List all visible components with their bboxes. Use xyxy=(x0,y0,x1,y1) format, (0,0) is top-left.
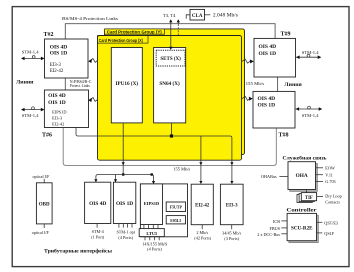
block T#2 line card xyxy=(45,39,89,78)
svg-text:2 x DCC-Bus: 2 x DCC-Bus xyxy=(257,232,280,237)
svg-text:(4 Ports): (4 Ports) xyxy=(147,247,162,252)
wire OIS 1D port ticks xyxy=(119,224,132,228)
svg-text:OIS 1D: OIS 1D xyxy=(50,51,68,57)
connector STM-1,4 right of T#8 xyxy=(296,106,323,119)
svg-text:Dry Loop: Dry Loop xyxy=(325,193,341,198)
svg-text:OIS 1D: OIS 1D xyxy=(48,100,66,106)
block CLA xyxy=(190,9,205,20)
card protection group X (front yellow card) xyxy=(98,36,242,161)
svg-text:OIS 4D: OIS 4D xyxy=(48,93,66,99)
wire CLA left stub xyxy=(186,15,190,19)
svg-text:OHABus: OHABus xyxy=(261,174,277,179)
svg-text:SETS (X): SETS (X) xyxy=(160,57,181,62)
label STM-4 (1 Port) xyxy=(91,229,105,239)
svg-text:(42 Ports): (42 Ports) xyxy=(194,235,211,240)
block SCU-R2E xyxy=(287,213,318,242)
svg-text:EIPS1D: EIPS1D xyxy=(52,110,66,115)
svg-text:155 Mb/s: 155 Mb/s xyxy=(173,167,190,172)
wire OHA to TIF xyxy=(306,190,308,193)
svg-text:CLA: CLA xyxy=(192,14,203,19)
label 2 Mb/s (42 Ports) xyxy=(194,230,211,240)
wire T3 sync input into SETS xyxy=(169,19,172,50)
wire BS/MS-4 protection links (top) xyxy=(65,24,275,39)
block E05L5 xyxy=(166,216,185,224)
wire SCU left stubs xyxy=(281,221,287,234)
svg-text:2.048 Mb/s: 2.048 Mb/s xyxy=(213,13,238,18)
svg-text:EI2-42: EI2-42 xyxy=(195,203,210,208)
svg-text:F5UTP: F5UTP xyxy=(170,206,183,210)
junction tributary bus xyxy=(151,173,153,175)
svg-text:T#9: T#9 xyxy=(281,32,291,38)
svg-text:FBUS: FBUS xyxy=(270,226,281,231)
wire T4 sync output (dashed) xyxy=(177,19,180,35)
svg-text:TIF: TIF xyxy=(305,196,313,201)
block LTU5 xyxy=(139,229,164,237)
block EI2-42 xyxy=(191,184,213,225)
svg-text:QS1F: QS1F xyxy=(324,231,334,236)
block EI3-3 xyxy=(220,184,243,225)
wire CLA right stub xyxy=(205,14,211,16)
svg-text:OHA: OHA xyxy=(296,173,308,179)
bundle link T#6 to group xyxy=(88,98,97,102)
label STM-1 opt (4 Ports) xyxy=(116,230,135,240)
svg-text:OIS 1D: OIS 1D xyxy=(116,201,133,207)
block OBD xyxy=(36,183,52,224)
block SN64 (X) xyxy=(154,48,186,123)
svg-text:(4 Ports): (4 Ports) xyxy=(118,235,133,240)
svg-text:EI2-42: EI2-42 xyxy=(50,69,64,74)
svg-text:EOW: EOW xyxy=(325,166,335,171)
label Dry Loop Contacts xyxy=(325,193,341,204)
bundle link group to T#8 xyxy=(242,96,253,100)
block T#9 line card xyxy=(254,38,296,77)
svg-text:optical I/F: optical I/F xyxy=(33,174,51,179)
wire OHABus stub xyxy=(279,175,288,177)
label NxP/BS4/R-C Protect. Links xyxy=(70,80,92,88)
svg-text:T#8: T#8 xyxy=(279,132,289,138)
svg-text:LTU5: LTU5 xyxy=(146,231,158,236)
wire EI2-42 port tick xyxy=(201,225,203,230)
connector STM-1,4 left of T#6 xyxy=(21,107,44,119)
svg-text:(3 Ports): (3 Ports) xyxy=(224,236,239,241)
block OIS 1D tributary xyxy=(113,182,135,223)
svg-text:OIS 1D: OIS 1D xyxy=(258,103,276,109)
svg-text:EIPS1D: EIPS1D xyxy=(144,201,160,206)
connector STM-1,4 left of T#2 xyxy=(21,49,45,60)
wire SN64 bottom bus to tributaries xyxy=(76,123,232,183)
wire OBD top tick xyxy=(43,179,45,183)
svg-text:E05L5: E05L5 xyxy=(170,219,181,223)
svg-text:QST/E3: QST/E3 xyxy=(324,220,338,225)
svg-text:OBD: OBD xyxy=(39,203,50,208)
block EIPS1D xyxy=(140,184,162,225)
svg-text:Служебная связь: Служебная связь xyxy=(283,154,327,161)
block IPU16 (X) xyxy=(111,48,142,123)
svg-text:T#2: T#2 xyxy=(44,32,54,38)
svg-text:Линия: Линия xyxy=(284,82,302,88)
svg-text:G.703: G.703 xyxy=(325,179,335,184)
wire OHA right stubs xyxy=(316,168,324,182)
wire tributary distribution bus xyxy=(94,175,155,185)
block T#8 line card xyxy=(253,91,295,128)
wire IPU16 down to tributary bus xyxy=(122,123,125,176)
junction SN64 bus xyxy=(170,134,173,137)
svg-text:SN64 (X): SN64 (X) xyxy=(159,80,180,87)
block T#6 line card xyxy=(44,90,88,128)
svg-text:OIS 4D: OIS 4D xyxy=(50,44,68,50)
svg-text:OIS 4D: OIS 4D xyxy=(258,96,276,102)
svg-text:Contacts: Contacts xyxy=(325,200,340,205)
svg-text:SCU-R2E: SCU-R2E xyxy=(291,225,313,231)
svg-text:155 Mb/s: 155 Mb/s xyxy=(246,81,265,86)
wire SCU right stubs xyxy=(317,222,323,233)
wire T#9 to T#8 link xyxy=(277,77,279,91)
svg-text:IPU16 (X): IPU16 (X) xyxy=(115,80,138,87)
svg-text:EI2-42: EI2-42 xyxy=(52,122,64,127)
svg-text:Controller: Controller xyxy=(287,208,318,214)
label 34/45 Mb/s (3 Ports) xyxy=(222,231,242,241)
svg-text:EI3-3: EI3-3 xyxy=(52,116,63,121)
block F5UTP xyxy=(166,202,185,212)
label box Card Protection Group (X) xyxy=(98,36,149,44)
connector STM-1,4 right of T#9 xyxy=(296,50,321,59)
block OIS 4D tributary xyxy=(85,182,111,223)
bundle link group to T#9 xyxy=(242,59,254,63)
svg-text:BS/MS-4 Protection Links: BS/MS-4 Protection Links xyxy=(62,16,118,21)
svg-text:EI3-3: EI3-3 xyxy=(50,63,62,68)
svg-text:Трибутарные интерфейсы: Трибутарные интерфейсы xyxy=(44,247,113,254)
svg-text:ICB: ICB xyxy=(273,219,280,224)
wire LTU5 lower ticks xyxy=(145,237,159,241)
wire LTU5 upper ticks xyxy=(144,225,158,229)
block SETS (X) xyxy=(156,50,185,66)
svg-text:OIS 1D: OIS 1D xyxy=(259,51,277,57)
wire EI3-3 port tick xyxy=(231,225,233,230)
svg-text:V.11: V.11 xyxy=(325,172,333,177)
block EIPS1D assembly outer xyxy=(140,184,187,237)
svg-text:optical I/F: optical I/F xyxy=(32,230,50,235)
svg-text:(1 Port): (1 Port) xyxy=(91,234,105,239)
svg-text:OIS 4D: OIS 4D xyxy=(89,201,106,207)
svg-text:Protect. Links: Protect. Links xyxy=(70,84,90,88)
svg-text:EI3-3: EI3-3 xyxy=(226,203,238,208)
block TIF (stacked) xyxy=(297,193,317,203)
card protection group Y (back yellow card) xyxy=(105,29,245,155)
arrowheads on EI feeder wires xyxy=(199,162,233,184)
label box Card Protection Group (Y) xyxy=(105,29,165,35)
wire OIS 4D port tick xyxy=(96,224,98,228)
block OHA xyxy=(288,162,317,192)
wire OBD bottom tick xyxy=(43,224,45,228)
svg-text:T#6: T#6 xyxy=(42,133,52,139)
wire T#2 to T#6 link xyxy=(64,78,66,90)
svg-text:Card Protection Group (X): Card Protection Group (X) xyxy=(99,38,144,43)
wire TIF right stub xyxy=(317,196,323,198)
label 14X/155 Mb/S (4 Ports) xyxy=(142,241,168,251)
bundle link T#2 to group xyxy=(88,59,97,63)
svg-text:Card Protection Group (Y): Card Protection Group (Y) xyxy=(107,29,163,34)
svg-text:Линии: Линии xyxy=(16,79,34,85)
wire gray bus T#6 bottom to T#8 bottom (enclosure) xyxy=(63,128,276,166)
svg-text:OIS 4D: OIS 4D xyxy=(259,44,277,50)
